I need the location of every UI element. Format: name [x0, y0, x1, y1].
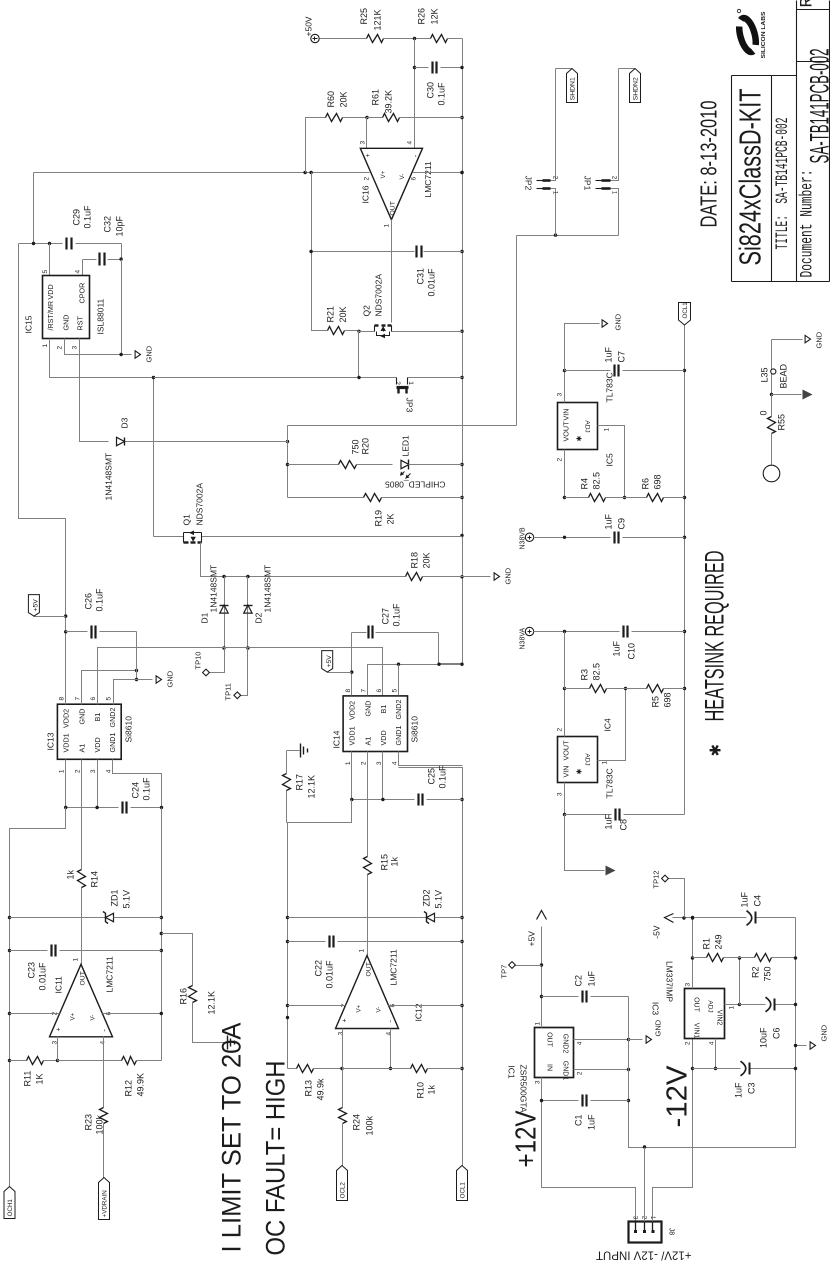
svg-text:1k: 1k	[427, 1084, 437, 1094]
svg-text:OCL1: OCL1	[682, 302, 689, 319]
svg-text:+: +	[365, 153, 372, 157]
wire IC1 pin2	[574, 1069, 629, 1071]
svg-text:SILICON LABS: SILICON LABS	[761, 11, 767, 58]
terminal P1 circle	[771, 434, 773, 466]
resistor R55 0	[771, 395, 773, 417]
svg-text:IN: IN	[546, 1064, 553, 1071]
svg-text:0.1uF: 0.1uF	[438, 765, 448, 789]
test point TP12	[669, 879, 685, 918]
wire J8 pin1 -12V	[653, 1039, 693, 1222]
wire R11 R12 line	[10, 1060, 27, 1062]
wire long feedback line	[161, 808, 163, 1061]
svg-text:5: 5	[106, 697, 113, 701]
svg-text:D1: D1	[200, 612, 210, 623]
svg-text:R55: R55	[777, 414, 787, 431]
wire Q2 source branch	[358, 331, 360, 378]
svg-text:C22: C22	[314, 960, 324, 977]
ground GND IC1	[629, 1039, 643, 1041]
svg-text:L35: L35	[760, 367, 770, 382]
net flag SHDN2	[619, 68, 635, 70]
transistor Q1 NDS7002A	[153, 378, 155, 537]
svg-text:TP10: TP10	[194, 652, 203, 670]
wire -5V line	[756, 917, 796, 919]
wire R21 branch	[312, 173, 328, 331]
test point TP7	[516, 965, 542, 967]
svg-text:IC3: IC3	[651, 1002, 661, 1016]
wire +50V to R25	[320, 38, 367, 40]
svg-text:1K: 1K	[35, 1073, 45, 1084]
svg-text:1: 1	[59, 769, 66, 773]
svg-text:B1: B1	[379, 705, 388, 714]
node R25/R26	[413, 37, 416, 40]
svg-text:A1: A1	[78, 744, 87, 753]
svg-text:CPOR: CPOR	[78, 283, 87, 304]
test point TP11	[241, 648, 248, 696]
svg-text:C8: C8	[619, 819, 629, 831]
svg-text:2: 2	[685, 1041, 692, 1045]
svg-text:R10: R10	[416, 1082, 426, 1099]
svg-text:R16: R16	[179, 988, 189, 1005]
svg-text:2: 2	[557, 458, 564, 462]
resistor R10 1k	[343, 1068, 411, 1070]
capacitor C4 1uF	[747, 911, 752, 926]
svg-text:10pF: 10pF	[115, 215, 125, 236]
svg-text:IC15: IC15	[24, 315, 34, 333]
wire +5V rail top	[33, 173, 35, 244]
svg-text:SHDN1: SHDN1	[570, 77, 577, 100]
svg-text:OCH1: OCH1	[7, 1199, 14, 1217]
svg-text:1N4148SMT: 1N4148SMT	[209, 565, 219, 613]
wire gnd rail bottom	[629, 918, 796, 1148]
svg-text:LMC7211: LMC7211	[105, 956, 115, 992]
resistor R24 100k	[342, 1069, 344, 1108]
svg-text:82.5: 82.5	[592, 663, 602, 681]
capacitor C25 0.1uF	[352, 799, 415, 801]
svg-text:3: 3	[338, 1032, 345, 1036]
svg-text:GND: GND	[820, 1024, 829, 1041]
svg-text:7: 7	[74, 697, 81, 701]
wire IC1 pin1 +5V out	[541, 927, 543, 1028]
resistor R12 49.9K	[58, 1060, 122, 1062]
wire jumper line vertical	[154, 377, 397, 379]
net flag +VDRAIN	[99, 1178, 110, 1220]
svg-text:LMC7211: LMC7211	[389, 949, 399, 985]
svg-text:6: 6	[90, 697, 97, 701]
svg-text:1k: 1k	[390, 856, 400, 866]
IC box IC13 Si8610	[57, 704, 121, 759]
svg-text:49.9K: 49.9K	[136, 1073, 146, 1097]
svg-text:R12: R12	[124, 1080, 134, 1097]
node +5V dots	[48, 242, 51, 245]
svg-text:698: 698	[663, 692, 673, 707]
svg-text:4: 4	[392, 761, 399, 765]
wire IC16 pin3	[366, 118, 368, 149]
wire IC12 V+	[288, 1005, 346, 1007]
node R13/R24	[340, 1067, 343, 1070]
svg-text:CHIPLED_0805: CHIPLED_0805	[385, 480, 446, 490]
IC box IC4 TL783C	[558, 737, 598, 783]
wire IC4 pin3	[564, 783, 566, 815]
svg-text:1uF: 1uF	[734, 1082, 744, 1098]
ground GND L35	[805, 335, 810, 342]
svg-text:NDS7002A: NDS7002A	[374, 274, 384, 317]
svg-text:3: 3	[90, 769, 97, 773]
svg-text:VIN2: VIN2	[716, 1010, 723, 1026]
svg-text:R24: R24	[352, 1114, 362, 1131]
wire loop top rail	[287, 426, 289, 498]
svg-text:12K: 12K	[430, 8, 440, 24]
svg-text:+50V: +50V	[304, 16, 314, 36]
resistor R3 82.5	[565, 688, 590, 690]
wire IC4 pin2	[564, 689, 566, 737]
diode LED1 CHIPLED_0805	[288, 464, 339, 466]
wire IC11 pin4 R23	[103, 1037, 105, 1108]
svg-text:VOUT: VOUT	[562, 740, 571, 761]
svg-text:3: 3	[557, 792, 564, 796]
ground earth R16	[227, 1036, 229, 1050]
svg-text:B1: B1	[93, 713, 102, 722]
capacitor C32	[83, 259, 97, 261]
svg-text:✱: ✱	[708, 744, 725, 757]
svg-text:0.01uF: 0.01uF	[38, 962, 48, 991]
wire IC5 adj	[598, 426, 625, 498]
svg-text:D3: D3	[120, 417, 130, 428]
svg-text:SHDN2: SHDN2	[633, 77, 640, 100]
svg-text:121K: 121K	[373, 9, 383, 30]
svg-text:+VDRAIN: +VDRAIN	[102, 1190, 109, 1217]
svg-text:ZSR500GTA: ZSR500GTA	[519, 1064, 529, 1112]
wire IC5 pin3	[564, 371, 566, 403]
wire IC12 left rail	[287, 823, 289, 1069]
svg-text:R20: R20	[361, 438, 371, 455]
wire IC16 pin4 feeder	[414, 39, 416, 148]
wire IC3 pin4	[715, 1039, 717, 1069]
resistor R25 121K	[367, 35, 384, 43]
wire IC5 pin2	[564, 450, 566, 498]
resistor R13 49.9k	[297, 1065, 314, 1073]
svg-text:C23: C23	[27, 962, 37, 979]
svg-text:R17: R17	[295, 774, 305, 791]
svg-text:GND: GND	[78, 709, 87, 725]
op-amp IC11 LMC7211	[50, 964, 113, 1037]
wire IC12 pin4	[390, 1029, 392, 1069]
arrow branch	[772, 394, 802, 396]
resistor R18 20K	[406, 573, 423, 581]
svg-text:C4: C4	[753, 895, 763, 907]
diode D3 1N4148SMT	[126, 441, 288, 443]
svg-text:C10: C10	[627, 643, 637, 660]
net flag OCL1 top	[679, 303, 691, 326]
capacitor C31 0.01uF	[312, 251, 415, 253]
svg-text:49.9k: 49.9k	[316, 1078, 326, 1101]
wire IC15 pin1	[50, 339, 154, 378]
wire IC14 pin2 R15 line	[367, 875, 369, 956]
svg-text:GND: GND	[166, 670, 175, 687]
wire IC13 pin3	[97, 760, 99, 808]
svg-text:GND: GND	[504, 567, 513, 584]
svg-text:HEATSINK REQUIRED: HEATSINK REQUIRED	[700, 551, 730, 722]
jumper JP1	[602, 179, 611, 182]
ground GND R18	[463, 576, 491, 578]
terminal N38VA	[525, 627, 533, 635]
wire IC4 gnd jog	[565, 815, 605, 871]
svg-text:C9: C9	[617, 518, 627, 530]
svg-text:IC14: IC14	[332, 730, 342, 748]
capacitor C24 0.1uF	[66, 807, 119, 809]
wire IC14 pin8 +5V	[351, 633, 353, 696]
svg-text:IC1: IC1	[507, 1065, 517, 1079]
svg-text:N38VB: N38VB	[520, 527, 527, 550]
svg-text:100k: 100k	[365, 1115, 375, 1135]
svg-text:C32: C32	[103, 216, 113, 233]
svg-text:1uF: 1uF	[604, 513, 614, 529]
svg-text:4: 4	[75, 270, 82, 274]
svg-text:GND1: GND1	[108, 733, 117, 753]
svg-text:GND: GND	[654, 1019, 663, 1036]
svg-text:GND1: GND1	[394, 726, 403, 746]
diode D1 1N4148SMT	[224, 577, 226, 614]
wire Q1 source rail	[225, 576, 406, 578]
svg-text:+12V: +12V	[511, 1110, 543, 1168]
svg-text:ISL88011: ISL88011	[96, 298, 106, 334]
wire R17 to pin1 jog	[287, 800, 352, 823]
svg-text:R: R	[798, 0, 818, 8]
svg-text:R11: R11	[23, 1071, 33, 1087]
svg-text:R3: R3	[580, 669, 590, 681]
wire IC13 pin8 +5V	[65, 519, 67, 705]
wire gnd branch C7	[565, 324, 600, 371]
title block frame	[731, 76, 733, 282]
wire J8 pin2 gnd	[644, 1148, 646, 1222]
svg-text:R23: R23	[84, 1114, 94, 1131]
svg-text:VDD1: VDD1	[348, 726, 357, 745]
svg-text:TL783C: TL783C	[605, 372, 615, 402]
svg-text:LED1: LED1	[401, 435, 411, 457]
svg-text:Q1: Q1	[182, 514, 192, 526]
svg-text:Si8610: Si8610	[124, 716, 134, 743]
wire IC12 rail jog to R17	[287, 822, 288, 824]
wire IC16 V- supply	[413, 172, 463, 174]
svg-text:4: 4	[106, 769, 113, 773]
resistor R60 20K	[326, 114, 343, 122]
net flag OCL1	[457, 1166, 468, 1201]
wire IC13 pin2 R14 line	[81, 888, 83, 965]
svg-text:GND2: GND2	[394, 700, 403, 720]
svg-text:R25: R25	[359, 8, 369, 25]
svg-text:0.1uF: 0.1uF	[437, 82, 447, 106]
ground GND IC13	[156, 676, 161, 683]
svg-text:C26: C26	[84, 593, 94, 610]
svg-text:R60: R60	[326, 91, 336, 108]
svg-text:4: 4	[577, 1041, 584, 1045]
op-amp IC16 LMC7211	[360, 148, 422, 219]
wire IC13 pin4 jog	[113, 760, 162, 808]
svg-text:3: 3	[72, 346, 79, 350]
wire IC14 pin3	[382, 752, 384, 800]
zener ZD2 5.1V	[288, 917, 427, 919]
svg-text:1: 1	[602, 761, 609, 765]
svg-text:VDD: VDD	[46, 284, 55, 299]
svg-text:698: 698	[653, 474, 663, 489]
svg-text:VIN1: VIN1	[693, 1023, 700, 1039]
svg-text:5.1V: 5.1V	[122, 890, 132, 909]
wire IC15 pin5	[49, 244, 51, 276]
wire IC11 V+	[10, 1013, 60, 1015]
wire IC12 pin3	[342, 1029, 344, 1069]
capacitor C9 1uF	[534, 537, 611, 539]
svg-text:I LIMIT SET TO 20A: I LIMIT SET TO 20A	[217, 1023, 247, 1253]
wire R1 R2 line	[693, 957, 707, 959]
svg-text:20K: 20K	[339, 91, 349, 107]
svg-text:2: 2	[74, 769, 81, 773]
svg-text:5: 5	[42, 270, 49, 274]
svg-text:GND: GND	[62, 315, 71, 331]
ground arrow IC4	[606, 866, 616, 876]
svg-text:5: 5	[392, 689, 399, 693]
svg-text:VDD: VDD	[93, 737, 102, 752]
svg-text:3: 3	[360, 141, 367, 145]
svg-text:TITLE: SA-TB141PCB-002: TITLE: SA-TB141PCB-002	[773, 118, 793, 250]
resistor R14 1k	[78, 870, 86, 888]
svg-text:N38VA: N38VA	[520, 628, 527, 650]
node R11/R12	[56, 1059, 59, 1062]
resistor R6 698	[647, 494, 664, 502]
svg-text:Document Number:: Document Number:	[798, 170, 818, 278]
wire loop link	[288, 425, 517, 427]
svg-text:R1: R1	[702, 938, 712, 950]
test point TP10	[210, 648, 225, 673]
wire IC11 pin3	[57, 1037, 59, 1061]
svg-text:0.01uF: 0.01uF	[325, 960, 335, 989]
svg-text:1: 1	[535, 1022, 542, 1026]
wire IC14 pin1	[351, 752, 353, 800]
svg-text:IC5: IC5	[605, 453, 615, 467]
resistor R26 12K	[431, 35, 448, 43]
svg-text:2: 2	[577, 1071, 584, 1075]
svg-text:0: 0	[759, 410, 769, 415]
svg-text:+: +	[342, 1018, 349, 1022]
svg-text:VDD: VDD	[379, 730, 388, 745]
svg-text:C1: C1	[574, 1115, 584, 1127]
svg-text:3: 3	[557, 393, 564, 397]
capacitor C8 1uF	[565, 814, 612, 816]
wire IC15 pin4	[82, 260, 84, 276]
svg-text:1uF: 1uF	[740, 891, 750, 907]
svg-text:GND: GND	[815, 331, 824, 348]
IC box IC1 ZSR500GTA	[535, 1028, 574, 1078]
wire Q1 source to R18 line	[201, 543, 225, 577]
svg-text:2: 2	[394, 381, 401, 385]
svg-text:8: 8	[59, 697, 66, 701]
transistor Q2 NDS7002A	[357, 330, 360, 333]
svg-text:R6: R6	[641, 478, 651, 490]
power flag +5V IC13	[34, 616, 66, 618]
zener ZD1 5.1V	[10, 917, 106, 919]
svg-text:V+: V+	[70, 1012, 77, 1020]
svg-text:2K: 2K	[386, 513, 396, 524]
svg-text:12.1K: 12.1K	[207, 991, 217, 1015]
resistor R61 39.2K	[367, 117, 383, 119]
resistor R1 249	[707, 954, 724, 962]
resistor R21 20K	[328, 327, 345, 335]
capacitor C1 1uF	[542, 1100, 579, 1102]
wire IC15 gnd run	[121, 260, 123, 355]
svg-text:0.01uF: 0.01uF	[427, 268, 437, 297]
resistor R5 698	[647, 685, 664, 693]
svg-text:IC12: IC12	[414, 1003, 424, 1021]
svg-text:-12V: -12V	[662, 1065, 694, 1128]
wire IC4 pin2 feeder	[564, 632, 566, 689]
wire R16 branch	[162, 934, 193, 986]
svg-text:0.1uF: 0.1uF	[392, 603, 402, 627]
svg-text:OUT: OUT	[366, 962, 373, 976]
svg-text:JP1: JP1	[583, 176, 593, 191]
node OCL1 rail junctions	[460, 798, 463, 801]
resistor R17 12.1K	[286, 791, 288, 823]
svg-text:C25: C25	[427, 768, 437, 785]
ground GND C7	[602, 320, 607, 327]
wire OCL1 rail	[399, 768, 463, 1166]
svg-text:6: 6	[411, 177, 418, 181]
svg-text:249: 249	[714, 934, 724, 949]
capacitor C29	[65, 238, 67, 250]
svg-text:3: 3	[685, 983, 692, 987]
svg-text:1: 1	[384, 224, 391, 228]
svg-text:V-: V-	[90, 1015, 97, 1021]
svg-text:1uF: 1uF	[587, 970, 597, 986]
svg-text:GND1: GND1	[562, 1061, 569, 1081]
svg-text:VIN: VIN	[562, 766, 571, 778]
svg-text:J8: J8	[668, 1228, 675, 1236]
svg-text:1: 1	[359, 949, 366, 953]
svg-text:Q2: Q2	[362, 305, 372, 317]
terminal +50V	[311, 34, 319, 42]
wire IC13 pin5 gnd	[114, 680, 153, 705]
power arrow +5V	[537, 911, 547, 920]
wire OCL1 top rail y684	[684, 326, 686, 815]
svg-text:TL783C: TL783C	[605, 768, 615, 798]
svg-text:C6: C6	[772, 1028, 782, 1040]
net flag OCH1	[4, 1187, 15, 1219]
svg-text:RST: RST	[76, 316, 85, 331]
capacitor C6 10uF	[740, 1004, 766, 1006]
svg-text:LM337IMP: LM337IMP	[665, 961, 675, 1002]
wire C29 net vertical	[19, 243, 63, 245]
wire IC15 pin3 to D3	[80, 339, 109, 442]
capacitor C26 0.1uF	[66, 631, 88, 633]
IC box IC14 Si8610	[343, 696, 407, 752]
svg-text:C29: C29	[72, 209, 82, 226]
svg-text:1uF: 1uF	[604, 346, 614, 362]
resistor R19 2K	[288, 497, 364, 499]
svg-text:ADJ: ADJ	[707, 1000, 714, 1012]
svg-text:7: 7	[360, 689, 367, 693]
svg-text:VDD2: VDD2	[62, 709, 71, 728]
resistor R15 1k	[364, 857, 372, 875]
ground earth IC14	[287, 750, 300, 752]
resistor R20 750	[339, 461, 357, 469]
svg-text:NDS7002A: NDS7002A	[195, 483, 205, 526]
svg-text:12.1K: 12.1K	[307, 775, 317, 799]
wire IC3 pin1 out	[725, 1004, 740, 1006]
svg-text:ZD1: ZD1	[110, 889, 120, 906]
svg-text:BEAD: BEAD	[779, 363, 789, 388]
connector J8	[629, 1222, 662, 1243]
svg-text:0.1uF: 0.1uF	[95, 588, 105, 612]
svg-text:V+: V+	[356, 1004, 363, 1012]
svg-text:R14: R14	[90, 871, 100, 888]
svg-text:4: 4	[386, 1032, 393, 1036]
